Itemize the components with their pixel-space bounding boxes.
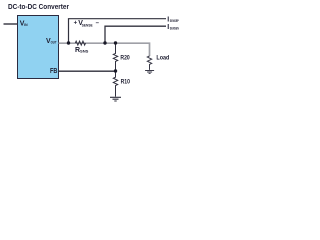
svg-text:SENSE: SENSE	[82, 23, 93, 27]
svg-text:SNS: SNS	[80, 49, 89, 53]
svg-text:SENSEN: SENSEN	[170, 26, 179, 30]
svg-text:Load: Load	[156, 54, 169, 61]
svg-text:+: +	[74, 20, 78, 26]
svg-text:DC-to-DC Converter: DC-to-DC Converter	[8, 2, 69, 11]
svg-text:IN: IN	[24, 23, 28, 27]
svg-text:R10: R10	[121, 79, 131, 86]
svg-text:SENSEP: SENSEP	[170, 19, 179, 23]
svg-text:FB: FB	[50, 68, 57, 75]
svg-text:R20: R20	[120, 55, 130, 62]
svg-text:OUT: OUT	[51, 41, 58, 45]
